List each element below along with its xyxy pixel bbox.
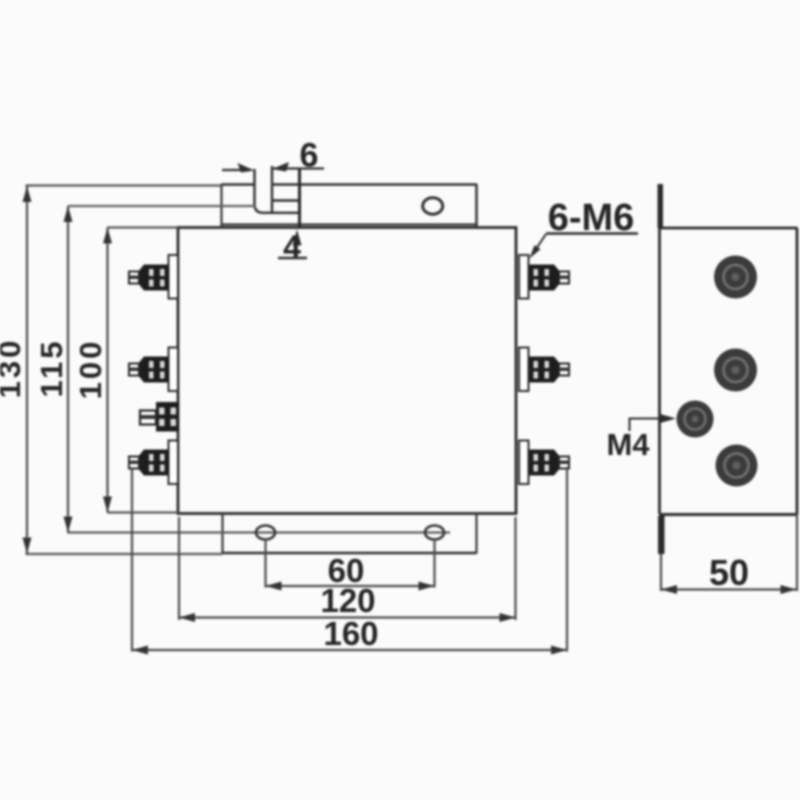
top flange right edge [475,184,478,227]
dimension line 100 [103,228,112,513]
svg-text:M4: M4 [606,427,650,462]
bottom flange left edge [221,514,223,554]
terminal R1 pin [559,272,569,284]
terminal R2 body [530,357,555,383]
terminal R1 bracket [519,255,569,299]
extension line 130 top [26,184,222,186]
terminal R3 cone [554,450,559,476]
terminal R3 bracket [519,441,569,485]
terminal L4 bracket [129,441,178,485]
extension line 100 top [108,226,179,228]
top flange bottom edge [222,223,477,225]
dim 6 right arrow and tail [272,162,324,172]
top flange top edge [222,183,478,186]
bottom flange hole centre line [68,531,451,533]
label 6-M6 leader arrow [536,234,546,249]
svg-text:115: 115 [34,338,69,397]
extension line 100 bottom [108,511,179,513]
terminal R2 cone [554,357,559,383]
side view bottom mounting plate edge [658,516,665,554]
bottom flange hole left [256,526,275,540]
svg-text:4: 4 [283,229,301,265]
box outline [178,228,516,514]
terminal L1 bracket [129,255,178,299]
terminal L4 body [144,450,169,476]
terminal R3 pin [559,457,569,469]
terminal L3 (earth stud) body [140,402,179,432]
side view bottom extension right [796,514,798,591]
keyhole slot edge B [272,166,300,212]
terminal L3 pin [140,411,156,425]
svg-text:120: 120 [320,582,375,619]
bottom flange hole right [425,526,444,540]
side view outline [659,228,798,515]
terminal L1 body [144,265,169,291]
dimension line 130 [23,186,32,554]
bottom flange right edge [475,514,477,554]
terminal R2 pin [559,364,569,376]
keyhole slot edge A [255,169,300,213]
side view bottom extension left [660,554,662,591]
terminal R1 body [530,265,555,291]
terminal L4 cone [139,450,144,476]
terminal L4 pin [129,457,139,469]
dimension 60 [266,539,435,591]
terminal L1 cone [139,265,144,291]
terminal R1 cone [554,265,559,291]
top flange left edge [220,184,222,226]
terminal L2 pin [129,364,139,376]
flange hole (ellipse) top right [423,198,443,214]
terminal L1 pin [129,272,139,284]
keyhole slot right vertical [298,169,301,228]
dimension 120 [179,517,516,622]
side M4 circle [677,401,714,438]
label 4 arrow [293,230,302,246]
dimension 50 [661,585,797,594]
terminal R2 bracket [519,348,569,392]
bottom flange bottom edge [223,552,477,555]
side terminal circle 2 [714,349,757,392]
dimension 160 [132,467,567,655]
extension line 130 bottom [26,553,223,555]
svg-text:100: 100 [73,339,108,400]
svg-text:130: 130 [0,338,27,399]
label M4 leader [630,414,677,431]
svg-text:160: 160 [323,615,378,652]
dimension line 115 [64,206,257,533]
svg-text:50: 50 [709,552,749,593]
extension line 115 top [68,205,256,207]
terminal R3 body [530,450,555,476]
label 4 underline [278,257,307,259]
svg-text:6: 6 [300,137,319,175]
side view top mounting plate edge [658,184,664,228]
dim 6 left arrow [222,163,255,173]
side terminal circle 1 [714,256,757,299]
label 6-M6 underline [546,232,638,235]
side terminal circle 3 [716,445,758,487]
terminal L2 cone [139,357,144,383]
terminal L2 body [144,357,169,383]
terminal L2 bracket [129,348,178,392]
